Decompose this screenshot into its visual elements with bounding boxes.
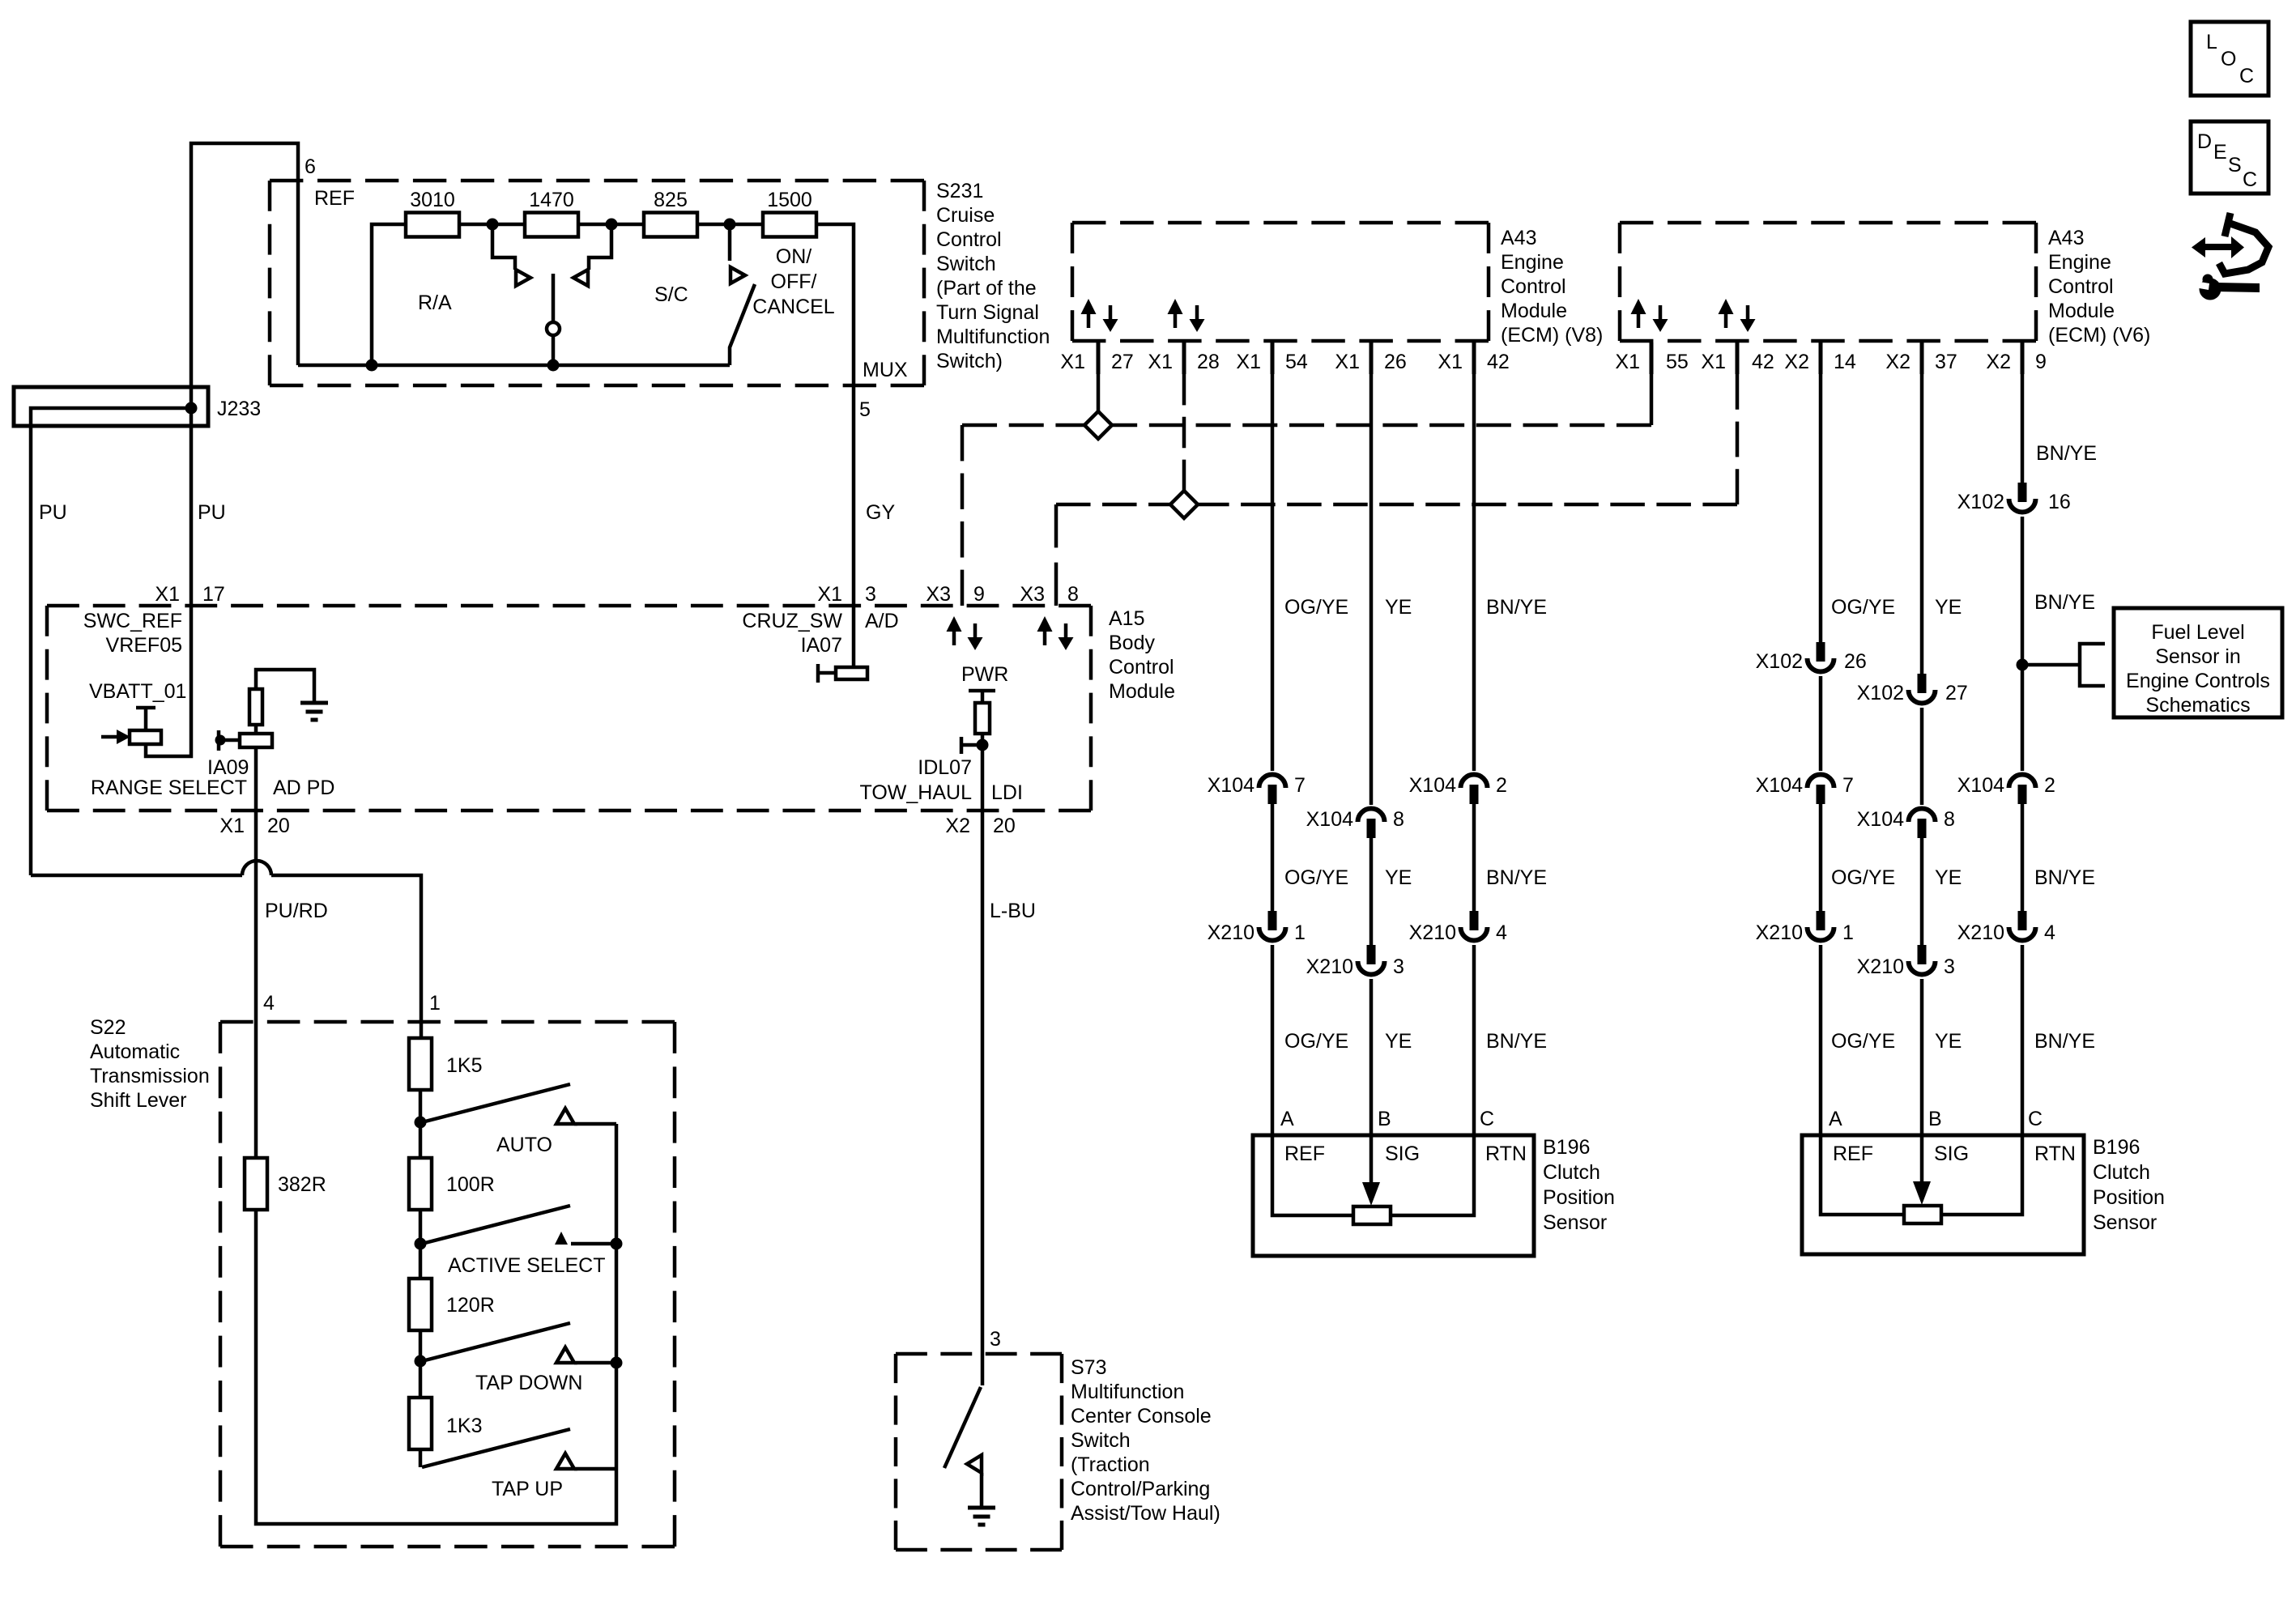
arrows ECM V8 X1-28 bbox=[1168, 299, 1183, 328]
svg-text:2: 2 bbox=[2044, 774, 2055, 797]
svg-text:BN/YE: BN/YE bbox=[1486, 1030, 1547, 1053]
svg-text:X1: X1 bbox=[1148, 351, 1173, 373]
svg-text:SIG: SIG bbox=[1385, 1143, 1420, 1165]
pin tick ECM V6 X2-9 bbox=[2021, 343, 2025, 374]
svg-text:26: 26 bbox=[1844, 650, 1867, 673]
wire 825 to 1500 bbox=[697, 223, 763, 227]
wire REF to potentiometer (V8) bbox=[1272, 1135, 1353, 1215]
svg-text:VBATT_01: VBATT_01 bbox=[89, 680, 186, 703]
svg-text:X210: X210 bbox=[1857, 955, 1904, 978]
svg-text:14: 14 bbox=[1834, 351, 1856, 373]
svg-text:BN/YE: BN/YE bbox=[1486, 596, 1547, 619]
svg-text:Automatic: Automatic bbox=[90, 1040, 180, 1063]
svg-text:4: 4 bbox=[1496, 921, 1507, 944]
wire SIG wiper arrow (V8) bbox=[1362, 1135, 1380, 1206]
wire dashed net ECM V8 X1-28 to diamond 2 bbox=[1182, 374, 1186, 491]
svg-text:SWC_REF: SWC_REF bbox=[83, 610, 182, 632]
svg-text:X2: X2 bbox=[1885, 351, 1910, 373]
svg-text:AUTO: AUTO bbox=[496, 1134, 552, 1156]
wire REF to potentiometer (V6) bbox=[1821, 1135, 1904, 1215]
wire ECM V8 X1-26 SIG (YE) bbox=[1370, 374, 1374, 805]
svg-text:X104: X104 bbox=[1306, 808, 1353, 831]
svg-text:Control: Control bbox=[936, 228, 1002, 251]
component box S231 Cruise Control Switch (dashed) bbox=[270, 181, 924, 385]
junction TAP DOWN tap bbox=[415, 1355, 427, 1368]
wire ECM V8 X1-54 REF (OG/YE) bbox=[1271, 374, 1275, 771]
ground symbol near IA09 bbox=[300, 703, 328, 720]
svg-text:20: 20 bbox=[993, 815, 1016, 837]
resistor 825 bbox=[644, 213, 697, 237]
pin tick ECM V6 X1-55 bbox=[1650, 343, 1654, 374]
svg-text:(ECM) (V8): (ECM) (V8) bbox=[1501, 324, 1603, 347]
svg-text:B196: B196 bbox=[1543, 1136, 1590, 1159]
wire X102-16 to fuel junction (BN/YE) bbox=[2021, 517, 2025, 771]
svg-text:S231: S231 bbox=[936, 180, 983, 202]
svg-text:OG/YE: OG/YE bbox=[1831, 596, 1895, 619]
component IA07 input bbox=[818, 664, 867, 683]
svg-text:(Part of the: (Part of the bbox=[936, 277, 1037, 300]
svg-text:RANGE SELECT: RANGE SELECT bbox=[91, 777, 247, 799]
diamond splice 1 bbox=[1084, 411, 1112, 439]
svg-text:825: 825 bbox=[654, 189, 688, 211]
svg-text:X1: X1 bbox=[1701, 351, 1726, 373]
junction IA09 tick bbox=[215, 735, 226, 746]
svg-text:X210: X210 bbox=[1957, 921, 2004, 944]
wire TAP DOWN contact bbox=[574, 1361, 616, 1365]
svg-text:X1: X1 bbox=[1335, 351, 1360, 373]
svg-text:YE: YE bbox=[1935, 866, 1962, 889]
junction node S/C tap bbox=[606, 219, 618, 231]
svg-text:X1: X1 bbox=[1236, 351, 1261, 373]
svg-text:X104: X104 bbox=[1756, 774, 1803, 797]
component PWR driver resistor bbox=[969, 691, 995, 811]
svg-text:Schematics: Schematics bbox=[2145, 694, 2250, 717]
wire resistor to ground arm bbox=[256, 670, 314, 703]
contact ACTIVE SELECT triangle (solid) bbox=[555, 1232, 568, 1245]
svg-text:9: 9 bbox=[973, 583, 985, 606]
wire TAP UP contact bbox=[574, 1467, 616, 1471]
svg-text:Sensor: Sensor bbox=[2093, 1211, 2157, 1234]
connector X104 pin 8 (V8) bbox=[1358, 809, 1385, 839]
wire X104-2 to X210-4 (V6) bbox=[2021, 804, 2025, 912]
wire AUTO contact bbox=[574, 1122, 616, 1126]
svg-text:X3: X3 bbox=[1020, 583, 1045, 606]
svg-text:MUX: MUX bbox=[863, 359, 908, 381]
svg-text:X2: X2 bbox=[1986, 351, 2011, 373]
DESC reference icon box bbox=[2191, 121, 2268, 194]
svg-text:IA07: IA07 bbox=[801, 634, 842, 657]
svg-text:Turn Signal: Turn Signal bbox=[936, 301, 1039, 324]
svg-text:SIG: SIG bbox=[1934, 1143, 1969, 1165]
node J233 splice box bbox=[14, 387, 208, 426]
resistor 1470 bbox=[525, 213, 578, 237]
svg-text:YE: YE bbox=[1385, 596, 1412, 619]
rocker pole wire bbox=[552, 274, 556, 322]
svg-text:OG/YE: OG/YE bbox=[1831, 866, 1895, 889]
wire 3010 to 1470 bbox=[459, 223, 525, 227]
svg-text:CANCEL: CANCEL bbox=[752, 296, 835, 318]
svg-text:VREF05: VREF05 bbox=[106, 634, 182, 657]
svg-text:28: 28 bbox=[1197, 351, 1220, 373]
svg-text:Fuel Level: Fuel Level bbox=[2151, 621, 2244, 644]
svg-text:TAP DOWN: TAP DOWN bbox=[475, 1372, 582, 1394]
svg-text:54: 54 bbox=[1285, 351, 1308, 373]
wire ACTIVE SELECT contact bbox=[571, 1242, 616, 1246]
svg-text:100R: 100R bbox=[446, 1173, 495, 1196]
svg-text:R/A: R/A bbox=[418, 291, 452, 314]
svg-text:Cruise: Cruise bbox=[936, 204, 995, 227]
potentiometer element (V6) bbox=[1904, 1206, 1941, 1223]
svg-text:Control: Control bbox=[1501, 275, 1566, 298]
wire X210-1 to B196 A (OG/YE) bbox=[1271, 945, 1275, 1135]
svg-text:Center Console: Center Console bbox=[1071, 1405, 1212, 1428]
svg-text:1: 1 bbox=[1294, 921, 1306, 944]
svg-text:37: 37 bbox=[1935, 351, 1957, 373]
svg-text:X102: X102 bbox=[1957, 491, 2004, 513]
svg-text:J233: J233 bbox=[217, 398, 261, 420]
wire ECM V6 X2-37 SIG (YE) bbox=[1920, 374, 1924, 674]
svg-text:27: 27 bbox=[1945, 682, 1968, 704]
wire pin 1 into 1K5 bbox=[420, 1022, 424, 1038]
wire ECM V8 X1-42 RTN (BN/YE) bbox=[1472, 374, 1476, 771]
switch lever TAP DOWN bbox=[422, 1323, 570, 1361]
switch lever ON/OFF/CANCEL bbox=[730, 284, 755, 365]
svg-text:Control/Parking: Control/Parking bbox=[1071, 1478, 1210, 1500]
svg-text:C: C bbox=[2239, 65, 2254, 87]
svg-text:X1: X1 bbox=[155, 583, 180, 606]
svg-text:Clutch: Clutch bbox=[1543, 1161, 1600, 1184]
wire 1470 to 825 bbox=[578, 223, 644, 227]
svg-text:3: 3 bbox=[990, 1328, 1001, 1351]
pin tick ECM V6 X2-37 bbox=[1920, 343, 1924, 374]
svg-text:Body: Body bbox=[1109, 632, 1155, 654]
svg-text:3: 3 bbox=[1944, 955, 1955, 978]
svg-text:X210: X210 bbox=[1208, 921, 1254, 944]
component box S73 Multifunction Center Console Switch (dashed) bbox=[896, 1354, 1062, 1550]
svg-text:8: 8 bbox=[1944, 808, 1955, 831]
arrows X3-8 bidirectional bbox=[1037, 616, 1053, 645]
svg-text:A: A bbox=[1280, 1108, 1294, 1130]
svg-text:X210: X210 bbox=[1756, 921, 1803, 944]
wire dashed net A15 X3-9 / diamond line bbox=[962, 374, 1651, 606]
svg-text:382R: 382R bbox=[278, 1173, 326, 1196]
switch R/A left arm bbox=[492, 224, 515, 270]
wire X1-17 into VBATT component bbox=[146, 606, 191, 756]
svg-text:17: 17 bbox=[202, 583, 225, 606]
svg-text:26: 26 bbox=[1384, 351, 1407, 373]
svg-text:C: C bbox=[1480, 1108, 1494, 1130]
wire resistor ladder feed bbox=[372, 224, 407, 365]
svg-text:X210: X210 bbox=[1409, 921, 1456, 944]
svg-text:D: D bbox=[2197, 130, 2212, 153]
svg-text:OFF/: OFF/ bbox=[771, 270, 817, 293]
wire X210-4 to B196 C (V6) bbox=[2021, 945, 2025, 1135]
svg-text:X2: X2 bbox=[1784, 351, 1809, 373]
component IA09 pull-up resistor bbox=[249, 689, 262, 725]
svg-text:L-BU: L-BU bbox=[990, 900, 1036, 922]
svg-text:X1: X1 bbox=[1438, 351, 1463, 373]
connector X210 pin 1 (V6) bbox=[1808, 911, 1834, 941]
component box A15 Body Control Module (dashed) bbox=[47, 606, 1091, 811]
svg-text:1470: 1470 bbox=[529, 189, 574, 211]
pin tick ECM V6 X1-42 bbox=[1736, 343, 1740, 374]
svg-text:7: 7 bbox=[1842, 774, 1854, 797]
wire tap to fuel level sensor bracket bbox=[2022, 644, 2105, 686]
svg-text:REF: REF bbox=[314, 187, 355, 210]
svg-text:A15: A15 bbox=[1109, 607, 1144, 630]
pin tick ECM V8 X1-27 bbox=[1097, 343, 1101, 374]
svg-text:A/D: A/D bbox=[865, 610, 899, 632]
wire 1K3 to TAP UP lever bbox=[419, 1449, 423, 1467]
wire 120R to 1K3 bbox=[419, 1330, 423, 1398]
junction TAP DOWN right bus bbox=[611, 1357, 623, 1369]
wire 1K5 to 100R bbox=[419, 1090, 423, 1158]
pin tick ECM V8 X1-26 bbox=[1370, 343, 1374, 374]
svg-text:Shift Lever: Shift Lever bbox=[90, 1089, 187, 1112]
svg-text:X1: X1 bbox=[1615, 351, 1640, 373]
svg-text:YE: YE bbox=[1935, 1030, 1962, 1053]
contact TAP DOWN triangle bbox=[556, 1347, 574, 1363]
arrows ECM V6 X1-55 bbox=[1631, 299, 1646, 328]
contact arrow R/A left bbox=[516, 270, 530, 286]
svg-text:1K5: 1K5 bbox=[446, 1054, 482, 1077]
svg-text:REF: REF bbox=[1833, 1143, 1873, 1165]
switch lever TAP UP bbox=[422, 1429, 570, 1467]
component box A43 ECM V8 (dashed) bbox=[1072, 223, 1489, 341]
svg-text:CRUZ_SW: CRUZ_SW bbox=[742, 610, 842, 632]
pin tick ECM V6 X2-14 bbox=[1819, 343, 1823, 374]
svg-text:Position: Position bbox=[1543, 1186, 1615, 1209]
svg-text:Multifunction: Multifunction bbox=[936, 326, 1050, 348]
svg-text:1: 1 bbox=[429, 992, 441, 1015]
svg-text:A43: A43 bbox=[1501, 227, 1536, 249]
switch lever S73 bbox=[944, 1387, 981, 1468]
svg-text:Module: Module bbox=[2048, 300, 2115, 322]
wire RTN to potentiometer (V8) bbox=[1391, 1135, 1474, 1215]
potentiometer element (V8) bbox=[1353, 1206, 1391, 1224]
svg-text:55: 55 bbox=[1666, 351, 1689, 373]
component box A43 ECM V6 (dashed) bbox=[1620, 223, 2036, 341]
svg-text:3: 3 bbox=[1393, 955, 1404, 978]
ground symbol S73 bbox=[968, 1508, 995, 1525]
connector X104 pin 7 (V6) bbox=[1808, 775, 1834, 804]
wire X104-7 to X210-1 (OG/YE) bbox=[1271, 804, 1275, 912]
wire S73 contact to ground bbox=[980, 1473, 984, 1508]
junction ACTIVE SELECT right bus bbox=[611, 1238, 623, 1250]
svg-text:9: 9 bbox=[2035, 351, 2047, 373]
svg-text:AD PD: AD PD bbox=[273, 777, 334, 799]
connector X104 pin 2 (V6) bbox=[2009, 775, 2036, 804]
svg-text:X2: X2 bbox=[945, 815, 970, 837]
svg-text:Multifunction: Multifunction bbox=[1071, 1381, 1184, 1403]
svg-text:BN/YE: BN/YE bbox=[2036, 442, 2097, 465]
svg-text:27: 27 bbox=[1111, 351, 1134, 373]
svg-text:42: 42 bbox=[1487, 351, 1510, 373]
svg-text:YE: YE bbox=[1385, 1030, 1412, 1053]
connector X102 pin 26 (V6) bbox=[1808, 642, 1834, 672]
junction rocker pole / common bus bbox=[547, 360, 560, 372]
component box Fuel Level Sensor reference bbox=[2114, 608, 2282, 717]
svg-text:B196: B196 bbox=[2093, 1136, 2140, 1159]
component IA09 driver bbox=[219, 730, 272, 751]
svg-text:X3: X3 bbox=[926, 583, 951, 606]
connector X104 pin 8 (V6) bbox=[1909, 809, 1936, 839]
component box B196 Clutch Position Sensor (V6) bbox=[1802, 1135, 2084, 1254]
LOC reference icon box bbox=[2191, 22, 2268, 96]
svg-text:RTN: RTN bbox=[2034, 1143, 2076, 1165]
contact arrow S/C bbox=[731, 267, 745, 283]
resistor 382R bbox=[245, 1158, 267, 1210]
svg-text:2: 2 bbox=[1496, 774, 1507, 797]
svg-text:PU/RD: PU/RD bbox=[265, 900, 328, 922]
svg-text:X102: X102 bbox=[1756, 650, 1803, 673]
connector X104 pin 2 (V8) bbox=[1461, 775, 1488, 804]
svg-text:X104: X104 bbox=[1409, 774, 1456, 797]
resistor 1K5 bbox=[409, 1038, 432, 1090]
svg-text:42: 42 bbox=[1752, 351, 1774, 373]
wire 382R to bottom bus bbox=[256, 1124, 616, 1524]
connector X210 pin 3 (V8) bbox=[1358, 945, 1385, 975]
switch common bus wire bbox=[298, 364, 730, 368]
svg-text:B: B bbox=[1928, 1108, 1942, 1130]
wire MUX to A15 X1-3 (GY) bbox=[852, 385, 856, 667]
svg-text:Position: Position bbox=[2093, 1186, 2165, 1209]
wire A15 X2-20 to S73 pin 3 (L-BU) bbox=[981, 811, 985, 1385]
arrows X3-9 bidirectional bbox=[947, 616, 962, 645]
resistor 1K3 bbox=[409, 1398, 432, 1449]
contact TAP UP triangle bbox=[556, 1453, 574, 1469]
wire PU from J233 to REF pin 6 bbox=[191, 143, 298, 606]
svg-text:20: 20 bbox=[267, 815, 290, 837]
svg-text:Transmission: Transmission bbox=[90, 1065, 210, 1087]
svg-text:YE: YE bbox=[1385, 866, 1412, 889]
arrows ECM V8 X1-27 bbox=[1081, 299, 1097, 328]
svg-text:S: S bbox=[2228, 154, 2242, 177]
component box B196 Clutch Position Sensor (V8) bbox=[1253, 1135, 1534, 1256]
pin tick ECM V8 X1-54 bbox=[1271, 343, 1275, 374]
wire PU branch to S22 pin 4 with hop bbox=[31, 861, 421, 1022]
svg-text:Sensor in: Sensor in bbox=[2155, 645, 2241, 668]
svg-text:X210: X210 bbox=[1306, 955, 1353, 978]
wire X104-2 to X210-4 (BN/YE) bbox=[1472, 804, 1476, 912]
svg-text:5: 5 bbox=[859, 398, 871, 421]
resistor 100R bbox=[409, 1158, 432, 1210]
svg-text:X1: X1 bbox=[219, 815, 245, 837]
svg-text:Switch: Switch bbox=[1071, 1429, 1131, 1452]
contact AUTO triangle bbox=[556, 1108, 574, 1124]
junction at J233 bbox=[185, 402, 198, 415]
svg-text:Sensor: Sensor bbox=[1543, 1211, 1607, 1234]
svg-text:X104: X104 bbox=[1857, 808, 1904, 831]
svg-text:A43: A43 bbox=[2048, 227, 2084, 249]
svg-text:X104: X104 bbox=[1208, 774, 1254, 797]
svg-text:PU: PU bbox=[198, 501, 226, 524]
svg-text:A: A bbox=[1829, 1108, 1842, 1130]
svg-text:120R: 120R bbox=[446, 1294, 495, 1317]
svg-text:BN/YE: BN/YE bbox=[2034, 591, 2095, 614]
switch S/C arm bbox=[728, 224, 732, 261]
svg-text:16: 16 bbox=[2048, 491, 2071, 513]
svg-text:ACTIVE SELECT: ACTIVE SELECT bbox=[448, 1254, 606, 1277]
svg-text:6: 6 bbox=[305, 155, 316, 178]
svg-text:S/C: S/C bbox=[654, 283, 688, 306]
svg-text:PWR: PWR bbox=[961, 663, 1008, 686]
arrows ECM V6 X1-42 bbox=[1719, 299, 1734, 328]
junction fuel level tap bbox=[2017, 659, 2029, 671]
svg-text:Module: Module bbox=[1501, 300, 1567, 322]
rocker pole pivot circle bbox=[547, 322, 560, 335]
wire X210-3 to B196 B (V6) bbox=[1920, 979, 1924, 1135]
rocker pole lower wire bbox=[552, 335, 556, 365]
svg-text:C: C bbox=[2028, 1108, 2043, 1130]
junction common-bus / ladder feed bbox=[366, 360, 378, 372]
wire dashed net A15 X3-8 / diamond 2 line bbox=[1056, 374, 1737, 606]
svg-text:IA09: IA09 bbox=[207, 756, 249, 779]
connector X102 pin 27 (V6) bbox=[1909, 674, 1936, 704]
svg-text:TAP UP: TAP UP bbox=[492, 1478, 563, 1500]
component box S22 Automatic Transmission Shift Lever (dashed) bbox=[220, 1022, 675, 1547]
svg-text:OG/YE: OG/YE bbox=[1831, 1030, 1895, 1053]
svg-text:TOW_HAUL: TOW_HAUL bbox=[860, 781, 973, 804]
wire inside J233 to left branch bbox=[31, 408, 191, 875]
svg-text:X1: X1 bbox=[817, 583, 842, 606]
svg-text:Engine Controls: Engine Controls bbox=[2126, 670, 2270, 692]
svg-text:Switch: Switch bbox=[936, 253, 996, 275]
svg-text:X102: X102 bbox=[1857, 682, 1904, 704]
svg-text:S73: S73 bbox=[1071, 1356, 1106, 1379]
svg-text:(Traction: (Traction bbox=[1071, 1453, 1150, 1476]
svg-text:X1: X1 bbox=[1060, 351, 1085, 373]
wire X1-20 to S22 pin 4 (PU/RD) bbox=[254, 811, 258, 1022]
wire RTN to potentiometer (V6) bbox=[1941, 1135, 2022, 1215]
svg-text:Control: Control bbox=[1109, 656, 1174, 679]
connector X102 pin 16 (V6) bbox=[2009, 483, 2036, 513]
svg-text:Clutch: Clutch bbox=[2093, 1161, 2150, 1184]
svg-text:Engine: Engine bbox=[1501, 251, 1564, 274]
svg-text:REF: REF bbox=[1284, 1143, 1325, 1165]
svg-text:4: 4 bbox=[263, 992, 275, 1015]
svg-text:7: 7 bbox=[1294, 774, 1306, 797]
svg-text:8: 8 bbox=[1067, 583, 1079, 606]
svg-text:BN/YE: BN/YE bbox=[2034, 1030, 2095, 1053]
wire IA09 resistor lead bbox=[254, 725, 258, 734]
wire X102-27 to X104-8 (YE) bbox=[1920, 708, 1924, 805]
svg-text:OG/YE: OG/YE bbox=[1284, 596, 1348, 619]
service information icon (arrow, outline, wrench) bbox=[2190, 213, 2268, 300]
wire X104-7 to X210-1 (V6) bbox=[1819, 804, 1823, 912]
svg-text:E: E bbox=[2213, 141, 2227, 164]
junction node ON/OFF tap bbox=[724, 219, 736, 231]
resistor 3010 bbox=[406, 213, 459, 237]
svg-text:B: B bbox=[1378, 1108, 1391, 1130]
wire ECM V6 X2-14 REF (OG/YE) bbox=[1819, 374, 1823, 642]
svg-text:C: C bbox=[2243, 168, 2257, 191]
junction AUTO tap bbox=[415, 1117, 427, 1129]
svg-text:LDI: LDI bbox=[991, 781, 1023, 804]
svg-text:GY: GY bbox=[866, 501, 895, 524]
svg-text:BN/YE: BN/YE bbox=[2034, 866, 2095, 889]
wire X210-1 to B196 A (V6) bbox=[1819, 945, 1823, 1135]
wire X102-26 to X104-7 (OG/YE) bbox=[1819, 676, 1823, 771]
wire X210-3 to B196 B (YE) bbox=[1370, 979, 1374, 1135]
svg-text:Control: Control bbox=[2048, 275, 2114, 298]
wire REF drop into switch common bbox=[296, 181, 300, 365]
wire dashed net ECM V8 X1-27 to diamond bbox=[1097, 374, 1101, 411]
svg-text:3: 3 bbox=[865, 583, 876, 606]
junction node R/A tap bbox=[487, 219, 499, 231]
svg-text:IDL07: IDL07 bbox=[918, 756, 972, 779]
wire 1500 to MUX pin bbox=[816, 224, 854, 385]
